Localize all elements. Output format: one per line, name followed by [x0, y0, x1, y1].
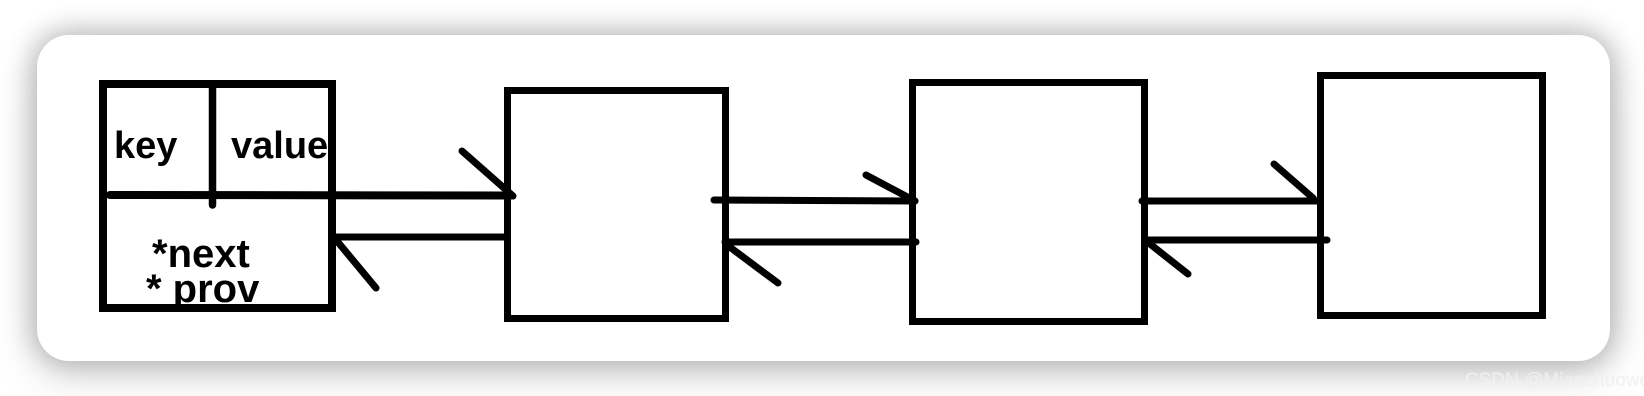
arrowhead slash next 3	[1274, 164, 1313, 198]
vertical divider (key/value)	[209, 84, 217, 205]
prev pointer line 2	[725, 239, 916, 246]
arrowhead slash prev 2	[727, 245, 778, 283]
panel	[37, 35, 1610, 361]
svg-text:* prov: * prov	[146, 267, 260, 311]
prev pointer line 3	[1146, 237, 1327, 244]
horizontal divider + next pointer line 1	[110, 191, 511, 200]
svg-text:value: value	[231, 125, 328, 167]
arrowhead slash prev 1	[337, 241, 376, 288]
arrowhead slash prev 3	[1150, 244, 1188, 274]
node box 1 (head node)	[103, 84, 332, 308]
arrowhead slash next 1	[462, 151, 513, 196]
node box 3	[913, 83, 1145, 322]
node box 4 (tail node)	[1321, 76, 1543, 316]
next pointer line 3	[1142, 198, 1320, 205]
watermark	[1465, 370, 1644, 392]
svg-text:key: key	[114, 125, 177, 167]
node box 2	[508, 91, 726, 319]
prev pointer line 1	[333, 234, 506, 241]
arrowhead slash next 2	[866, 175, 915, 201]
next pointer line 2	[714, 200, 915, 201]
